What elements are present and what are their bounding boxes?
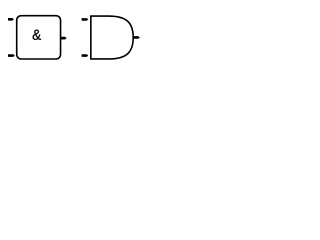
U1 function label "&"	[33, 30, 41, 40]
U1 input pin 2	[8, 54, 15, 57]
U1 output pin	[61, 37, 66, 40]
U2 body outline	[91, 16, 133, 59]
U1 body outline	[17, 16, 61, 59]
U2 input pin 1	[82, 18, 89, 21]
U1 input pin 1	[8, 18, 14, 21]
AND gate U1 (IEC rectangular symbol)	[17, 16, 61, 59]
U2 output pin	[134, 36, 140, 39]
AND gate U2 (ANSI distinctive-shape symbol)	[91, 16, 133, 59]
U2 input pin 2	[82, 54, 89, 57]
